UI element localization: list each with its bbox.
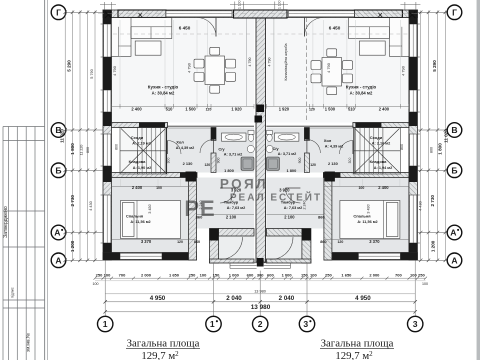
porch steps right <box>264 263 291 269</box>
svg-text:120: 120 <box>310 163 316 167</box>
svg-text:Хол: Хол <box>176 139 184 144</box>
porch door arc right <box>271 237 294 260</box>
svg-text:А: 1,94 м2: А: 1,94 м2 <box>374 166 392 170</box>
svg-text:Кладова: Кладова <box>370 159 388 164</box>
svg-text:6 450: 6 450 <box>179 26 191 31</box>
svg-text:5 290: 5 290 <box>432 60 437 72</box>
stairs fill <box>120 128 167 175</box>
dining table <box>322 58 342 87</box>
svg-text:129,7 м2: 129,7 м2 <box>141 350 179 360</box>
top wall window <box>166 11 232 17</box>
4950/2040 dim row <box>105 301 415 303</box>
svg-text:4 430: 4 430 <box>418 201 422 211</box>
fine dim row <box>95 277 426 279</box>
row line А <box>66 259 103 261</box>
corner cross marks <box>105 12 112 19</box>
top-left corner ticks <box>104 2 106 10</box>
svg-text:2 130: 2 130 <box>328 161 338 166</box>
tambour/porch west wall <box>210 229 219 264</box>
svg-text:1: 1 <box>103 319 108 329</box>
window sill marks <box>101 23 103 25</box>
svg-text:А: 2,19 м2: А: 2,19 м2 <box>132 142 150 146</box>
svg-text:100: 100 <box>93 282 99 286</box>
porch bottom wall <box>210 259 255 263</box>
svg-text:120: 120 <box>206 107 212 111</box>
svg-text:1 800: 1 800 <box>437 143 442 155</box>
svg-text:800: 800 <box>115 144 119 150</box>
left exterior wall <box>103 10 112 260</box>
toilet <box>248 131 254 135</box>
svg-text:900: 900 <box>217 158 221 164</box>
svg-text:3 370: 3 370 <box>141 239 152 244</box>
svg-text:Спальня: Спальня <box>126 213 144 218</box>
grid circle В <box>51 123 66 138</box>
kitchen window dim dashes <box>113 33 253 35</box>
svg-text:5 290: 5 290 <box>66 60 71 72</box>
svg-text:Загальна площа: Загальна площа <box>321 338 394 350</box>
svg-text:Б: Б <box>55 165 61 175</box>
svg-text:А: А <box>451 255 457 265</box>
tambour door <box>220 188 235 203</box>
svg-text:РОЯЛ: РОЯЛ <box>220 177 268 192</box>
hall room fill <box>168 128 212 173</box>
svg-text:1 000: 1 000 <box>282 273 293 278</box>
stairs top wall (row B) <box>112 123 168 128</box>
bathroom west wall <box>211 128 216 141</box>
coffee table <box>135 41 161 55</box>
svg-text:2: 2 <box>258 319 263 329</box>
svg-text:100: 100 <box>422 282 428 286</box>
svg-text:Кладова: Кладова <box>129 159 147 164</box>
left wall window <box>104 24 111 57</box>
svg-text:860: 860 <box>194 240 200 244</box>
watermark logo <box>184 177 322 222</box>
svg-text:250: 250 <box>189 273 196 278</box>
svg-text:2 400: 2 400 <box>132 185 143 190</box>
shower tray <box>241 157 254 170</box>
svg-text:А: 30,84 м2: А: 30,84 м2 <box>350 90 373 95</box>
svg-text:А: 7,63 м2: А: 7,63 м2 <box>284 206 302 210</box>
row line Г <box>66 11 103 13</box>
svg-text:А: 11,56 м2: А: 11,56 м2 <box>357 220 377 224</box>
svg-text:3 430: 3 430 <box>148 204 152 213</box>
svg-text:Сходи: Сходи <box>131 135 144 140</box>
svg-text:Затверджено: Затверджено <box>3 206 9 238</box>
svg-text:3 920: 3 920 <box>279 188 290 193</box>
svg-text:Тамбур: Тамбур <box>281 199 296 204</box>
grid circle А <box>51 253 66 268</box>
svg-text:РЕАЛ ЕСТЕЙТ: РЕАЛ ЕСТЕЙТ <box>230 191 322 204</box>
stairs block <box>120 128 167 175</box>
svg-text:3: 3 <box>303 319 308 329</box>
balcony door top <box>215 18 217 37</box>
bedroom top wall <box>112 173 198 178</box>
kitchen dim line <box>112 105 255 107</box>
svg-text:510: 510 <box>348 106 356 111</box>
svg-text:860: 860 <box>318 214 325 219</box>
svg-text:120: 120 <box>309 107 315 111</box>
top exterior wall <box>103 10 254 18</box>
svg-text:2 400: 2 400 <box>378 185 389 190</box>
svg-text:13 980: 13 980 <box>251 304 271 311</box>
svg-text:1 920: 1 920 <box>279 106 290 111</box>
svg-text:4 430: 4 430 <box>89 201 93 211</box>
svg-text:4 790: 4 790 <box>401 65 406 76</box>
svg-text:100: 100 <box>358 186 364 190</box>
bedroom east wall <box>189 178 197 261</box>
svg-text:100: 100 <box>200 273 207 278</box>
bottom wall piers <box>103 253 120 261</box>
svg-text:С/у: С/у <box>218 146 225 151</box>
grid circle А* <box>447 225 462 240</box>
bottom exterior wall (bedroom) <box>103 253 197 261</box>
svg-text:11 220: 11 220 <box>79 145 83 156</box>
svg-text:120: 120 <box>177 240 183 244</box>
left dimension verticals <box>64 11 66 261</box>
svg-text:100: 100 <box>104 273 111 278</box>
sofa <box>112 18 172 39</box>
grid circle Б <box>51 163 66 178</box>
grid circle 1 <box>98 316 113 331</box>
svg-text:700: 700 <box>395 273 402 278</box>
svg-text:2 040: 2 040 <box>279 295 295 302</box>
svg-text:100: 100 <box>410 273 417 278</box>
svg-text:13 980: 13 980 <box>254 290 266 294</box>
round sink <box>247 145 254 152</box>
svg-text:11 020: 11 020 <box>444 129 449 143</box>
svg-text:120: 120 <box>204 163 210 167</box>
svg-text:1 920: 1 920 <box>231 106 242 111</box>
svg-text:1 800: 1 800 <box>70 143 75 155</box>
svg-text:1 200: 1 200 <box>70 240 75 252</box>
svg-text:2 130: 2 130 <box>183 161 193 166</box>
kitchen-studio room fill <box>112 18 255 123</box>
svg-text:2 240: 2 240 <box>199 201 203 210</box>
svg-text:А: 4,39 м2: А: 4,39 м2 <box>176 146 194 150</box>
svg-text:5 790: 5 790 <box>90 69 94 79</box>
svg-text:Кухня - студіо: Кухня - студіо <box>148 85 179 90</box>
left wall window <box>104 195 111 243</box>
svg-text:1 650: 1 650 <box>341 273 352 278</box>
svg-text:1 650: 1 650 <box>169 273 180 278</box>
bottom leaders <box>104 260 106 316</box>
top center dim ticks <box>234 2 236 11</box>
svg-text:1 800: 1 800 <box>287 168 297 173</box>
row line Б <box>66 169 103 171</box>
svg-text:В: В <box>451 125 457 135</box>
bottom wall window <box>120 253 162 259</box>
svg-text:А: 2,16 м2: А: 2,16 м2 <box>372 142 390 146</box>
grid circle А <box>447 253 462 268</box>
svg-text:А: 11,56 м2: А: 11,56 м2 <box>130 220 150 224</box>
svg-text:2 000: 2 000 <box>369 273 380 278</box>
svg-text:1 500: 1 500 <box>185 106 196 111</box>
svg-text:Хол: Хол <box>324 138 332 143</box>
svg-text:1: 1 <box>210 319 215 329</box>
svg-text:Сходи: Сходи <box>370 135 383 140</box>
right page edge strip <box>477 0 480 360</box>
left wall window <box>104 90 111 112</box>
svg-text:Г: Г <box>452 7 457 17</box>
svg-text:1 800: 1 800 <box>224 168 234 173</box>
svg-text:250: 250 <box>325 273 332 278</box>
svg-text:4 790: 4 790 <box>112 65 117 76</box>
grid circle Г <box>51 5 66 20</box>
svg-text:Г: Г <box>56 7 61 17</box>
sewer chase dashed line <box>306 18 308 123</box>
left housing unit <box>101 10 255 263</box>
svg-text:800: 800 <box>400 144 404 150</box>
kitchen dim extension lines <box>119 20 121 106</box>
bathroom fill <box>211 128 254 173</box>
grid circle 2 <box>253 316 268 331</box>
bed <box>121 201 181 239</box>
stairs door arc <box>168 141 182 155</box>
tambour north wall <box>219 229 255 237</box>
porch steps left <box>230 263 257 269</box>
svg-text:2 100: 2 100 <box>226 214 237 219</box>
svg-text:11 020: 11 020 <box>59 129 64 143</box>
13980 small dim row <box>105 293 415 295</box>
svg-text:А: А <box>55 255 61 265</box>
svg-text:Б: Б <box>451 165 457 175</box>
13980 dim row <box>105 311 415 313</box>
svg-text:1 200: 1 200 <box>430 240 435 252</box>
row line А <box>66 232 103 234</box>
grid circle Г <box>447 5 462 20</box>
left wall piers <box>103 10 112 24</box>
svg-text:800: 800 <box>86 147 90 153</box>
svg-text:2 240: 2 240 <box>303 201 307 210</box>
svg-text:2 730: 2 730 <box>70 195 75 207</box>
bedroom dim line <box>112 185 197 187</box>
svg-text:700: 700 <box>119 273 126 278</box>
svg-text:250: 250 <box>96 273 103 278</box>
dining table <box>205 56 225 85</box>
svg-text:4 790: 4 790 <box>187 62 192 73</box>
svg-text:А: 3,71 м2: А: 3,71 м2 <box>224 152 242 156</box>
svg-text:1 500: 1 500 <box>325 106 336 111</box>
svg-text:1 000: 1 000 <box>229 273 240 278</box>
svg-text:3: 3 <box>413 319 418 329</box>
svg-text:Кухня - студіо: Кухня - студіо <box>346 85 377 90</box>
chairs <box>311 61 321 70</box>
bedroom fill <box>112 178 189 253</box>
svg-text:800: 800 <box>429 147 433 153</box>
svg-text:1 100: 1 100 <box>238 0 242 9</box>
svg-text:А: 7,63 м2: А: 7,63 м2 <box>227 206 245 210</box>
svg-text:3 920: 3 920 <box>231 188 242 193</box>
svg-text:4 790: 4 790 <box>267 58 271 67</box>
grid circle 3 <box>408 316 423 331</box>
svg-text:510: 510 <box>166 106 174 111</box>
svg-text:4 950: 4 950 <box>355 295 371 302</box>
svg-text:129,7 м2: 129,7 м2 <box>335 350 373 360</box>
top wall axis dashed centerline <box>98 13 422 15</box>
svg-text:2 400: 2 400 <box>379 106 390 111</box>
svg-text:600: 600 <box>247 273 254 278</box>
svg-text:2 100: 2 100 <box>284 214 295 219</box>
svg-text:860: 860 <box>196 214 203 219</box>
svg-text:А: 1,90 м2: А: 1,90 м2 <box>133 166 151 170</box>
grid circle Б <box>447 163 462 178</box>
porch door arc left <box>220 237 243 260</box>
svg-text:зм.інв.№: зм.інв.№ <box>26 333 31 352</box>
svg-text:Каналізаційна штроба: Каналізаційна штроба <box>284 44 288 81</box>
svg-text:2 400: 2 400 <box>131 106 142 111</box>
svg-text:2 730: 2 730 <box>430 195 435 207</box>
title block table <box>3 126 45 128</box>
grid circle А* <box>51 225 66 240</box>
svg-text:860: 860 <box>320 240 326 244</box>
row line В <box>66 129 103 131</box>
svg-text:А: А <box>54 228 60 238</box>
right housing unit (mirror) <box>266 10 420 263</box>
vanity <box>222 133 247 141</box>
svg-text:2 000: 2 000 <box>141 273 152 278</box>
svg-text:А: 3,71 м2: А: 3,71 м2 <box>278 152 296 156</box>
svg-text:4 790: 4 790 <box>326 62 331 73</box>
svg-text:250: 250 <box>418 273 425 278</box>
grid circle 1* <box>206 316 221 331</box>
party wall <box>256 10 266 262</box>
left wall window <box>104 134 111 166</box>
kitchen glass partition <box>246 18 248 107</box>
bedroom dim extensions <box>120 179 122 186</box>
svg-text:А: 30,84 м2: А: 30,84 м2 <box>152 90 175 95</box>
top wall solid segment <box>118 10 166 18</box>
svg-text:300: 300 <box>257 273 264 278</box>
svg-text:А: 4,39 м2: А: 4,39 м2 <box>325 145 343 149</box>
svg-text:900: 900 <box>298 158 302 164</box>
svg-text:2 040: 2 040 <box>226 295 242 302</box>
svg-text:100: 100 <box>310 273 317 278</box>
svg-text:А: А <box>450 228 456 238</box>
chairs <box>194 59 204 68</box>
pier T near tambour <box>186 172 197 182</box>
svg-text:6 450: 6 450 <box>329 26 341 31</box>
svg-text:Тамбур: Тамбур <box>224 199 239 204</box>
svg-text:150: 150 <box>301 273 308 278</box>
porch fill <box>219 236 255 259</box>
stairs east wall <box>166 128 168 175</box>
tambour fill <box>197 178 255 229</box>
grid circle В <box>447 123 462 138</box>
svg-text:Загальна площа: Загальна площа <box>127 338 200 350</box>
svg-text:4 950: 4 950 <box>150 295 166 302</box>
stairs diagonals <box>121 129 166 173</box>
shaft blocks <box>257 105 265 113</box>
svg-text:3 430: 3 430 <box>366 204 370 213</box>
entry steps stub <box>257 258 264 267</box>
grid circle 3* <box>299 316 314 331</box>
svg-text:3 370: 3 370 <box>369 239 380 244</box>
svg-text:С/у: С/у <box>272 146 279 151</box>
svg-text:4 790: 4 790 <box>248 58 252 67</box>
svg-text:600: 600 <box>267 273 274 278</box>
svg-text:1 100: 1 100 <box>278 0 282 9</box>
svg-text:300: 300 <box>348 158 352 164</box>
drawing frame left border <box>44 0 46 360</box>
svg-text:120: 120 <box>337 240 343 244</box>
svg-text:150: 150 <box>213 273 220 278</box>
svg-text:підпис: підпис <box>11 287 15 298</box>
bathroom door <box>200 140 214 154</box>
svg-text:300: 300 <box>167 158 171 164</box>
right dimension verticals <box>420 11 422 261</box>
top wall lintel bar over party zone <box>234 10 288 18</box>
svg-text:100: 100 <box>156 186 162 190</box>
